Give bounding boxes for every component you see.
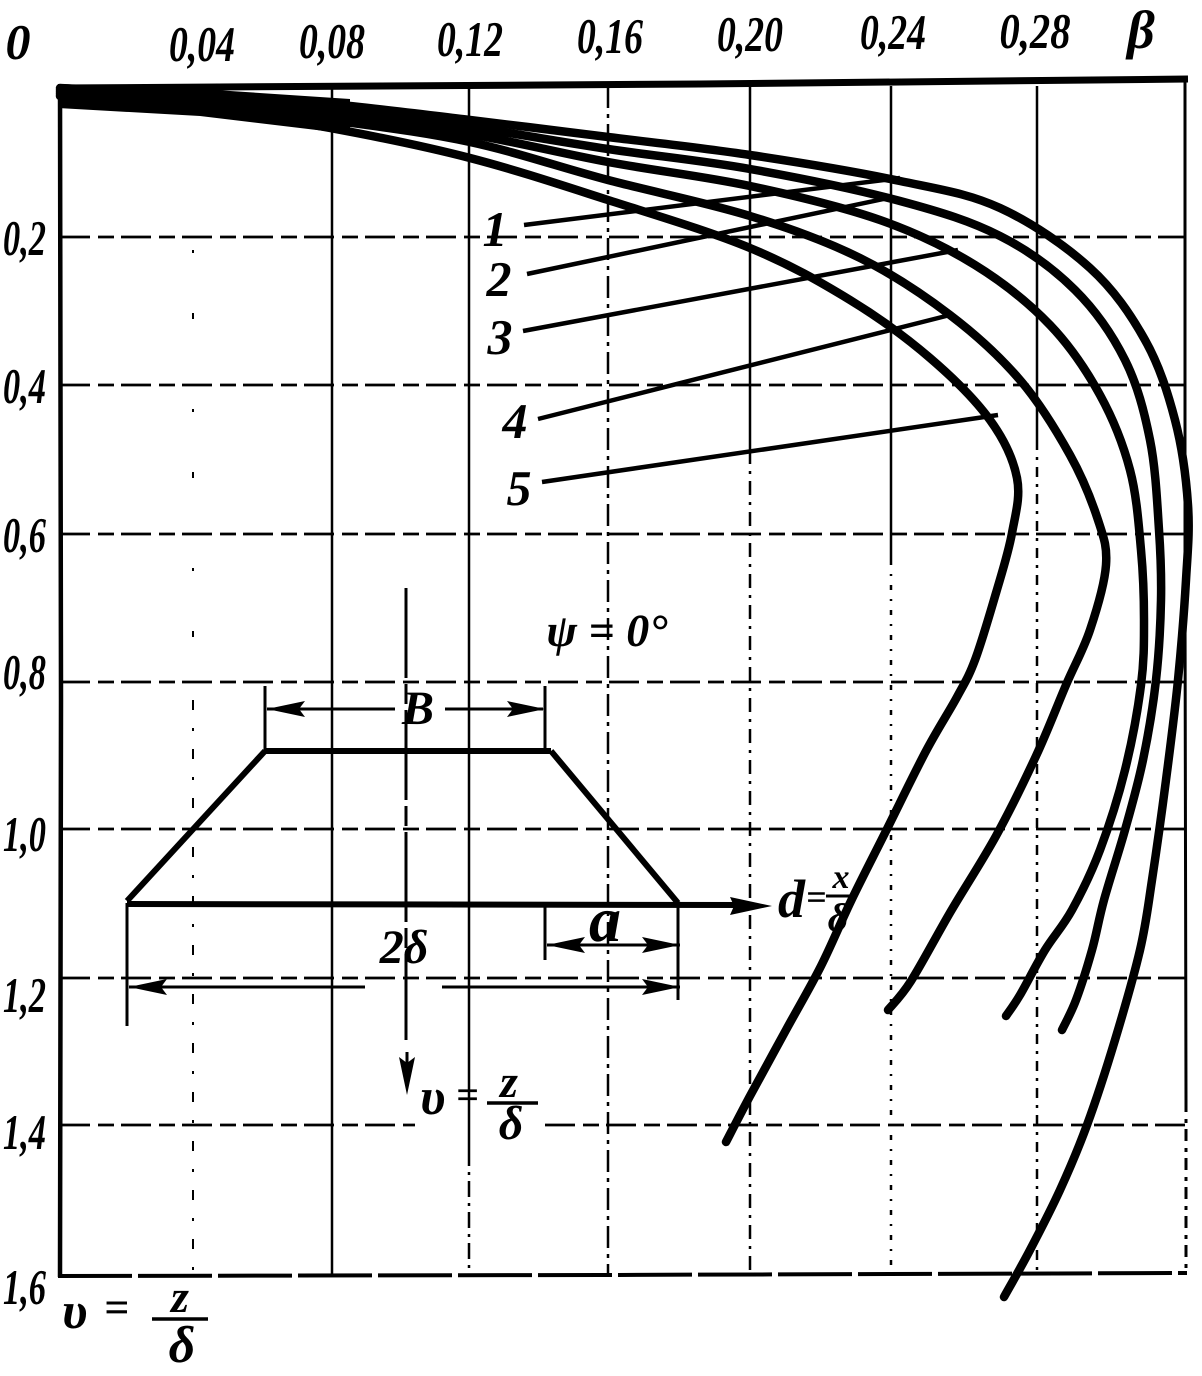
horizontal gridline y=1.0 [60,828,1185,831]
svg-text:υ: υ [420,1069,445,1126]
a dimension left arrowhead [547,937,585,953]
svg-text:1: 1 [483,201,508,257]
a dimension extension line left [544,905,547,960]
2b dimension right arrowhead [642,979,680,995]
2b dimension line [129,986,365,989]
leader line to curve 4 [538,315,950,419]
svg-text:5: 5 [507,460,532,516]
a dimension extension line right [677,905,680,1000]
vertical gridline x=0.28 [1036,86,1039,440]
svg-text:2δ: 2δ [379,921,429,974]
inset trapezoid right slope [551,751,678,903]
plot frame bottom border [58,1273,1187,1276]
svg-text:z: z [169,1271,189,1322]
svg-text:β: β [1125,0,1155,60]
a dimension line [547,944,680,947]
plot frame left axis [60,86,61,1277]
svg-text:0,08: 0,08 [299,13,365,69]
leader line to curve 1 [524,178,900,225]
svg-text:1,6: 1,6 [3,1259,46,1315]
B dimension right arrowhead [507,701,545,717]
2b dimension extension line left [126,903,129,1026]
curve 5 [60,96,1018,1142]
horizontal gridline y=0.2 [60,236,1185,239]
svg-text:δ: δ [828,895,849,940]
horizontal gridline y=1.4 [60,1124,415,1127]
vertical gridline x=0.08 [331,86,334,1276]
svg-text:x: x [832,859,850,896]
a dimension right arrowhead [642,937,680,953]
vertical gridline x=0.24 [890,86,893,560]
leader line to curve 5 [542,415,998,482]
horizontal gridline y=1.2 [60,977,1185,980]
inset vertical centerline (z axis) [405,588,408,1040]
svg-text:0: 0 [6,14,31,70]
horizontal gridline y=0.4 [60,384,1185,387]
svg-text:ψ = 0°: ψ = 0° [546,605,668,656]
svg-text:0,20: 0,20 [717,6,783,62]
inset x-axis arrowhead [730,897,772,915]
inset trapezoid top edge [265,748,551,754]
svg-text:0,2: 0,2 [3,210,46,266]
B dimension extension line left [264,686,267,753]
svg-text:0,24: 0,24 [860,4,926,60]
svg-text:0,6: 0,6 [3,507,46,563]
leader line to curve 3 [523,250,958,331]
svg-text:0,8: 0,8 [3,644,46,700]
svg-text:=: = [104,1283,129,1332]
vertical gridline x=0.16 [607,86,610,1276]
vertical gridline x=0.04 (faint dotted) [192,250,194,700]
svg-text:0,4: 0,4 [3,358,46,414]
svg-text:1,0: 1,0 [3,806,46,862]
svg-text:0,16: 0,16 [577,8,643,64]
svg-text:0,28: 0,28 [1000,3,1071,59]
svg-text:δ: δ [169,1317,196,1371]
svg-text:a: a [589,884,621,955]
vertical gridline x=0.20 [749,86,752,450]
svg-text:4: 4 [502,393,528,449]
B dimension line [267,708,395,711]
svg-text:1,2: 1,2 [3,967,46,1023]
svg-text:δ: δ [499,1097,524,1150]
2b dimension left arrowhead [129,979,167,995]
svg-text:0,04: 0,04 [169,16,235,72]
inset trapezoid left slope [127,751,265,901]
horizontal gridline y=0.8 [60,681,1185,684]
plot frame right border [1185,80,1186,1100]
curve 2 [60,90,1161,1030]
curve 4 [60,94,1106,1010]
svg-text:υ: υ [62,1283,87,1340]
svg-text:d: d [778,869,806,929]
curve 3 [60,92,1144,1016]
curve bundle dark wedge [58,84,350,134]
inset base line with x-axis extension [127,904,745,905]
svg-text:3: 3 [487,309,513,365]
svg-text:=: = [806,877,827,917]
leader line to curve 2 [527,197,893,274]
vertical gridline x=0.12 [468,86,471,1150]
svg-text:0,12: 0,12 [437,11,503,67]
svg-text:=: = [456,1072,479,1117]
horizontal gridline y=0.6 [60,533,1185,536]
B dimension left arrowhead [267,701,305,717]
z axis arrowhead [399,1057,415,1095]
plot frame top border [58,79,1188,88]
svg-text:2: 2 [486,251,512,307]
svg-text:1,4: 1,4 [3,1104,46,1160]
B dimension extension line right [544,686,547,751]
